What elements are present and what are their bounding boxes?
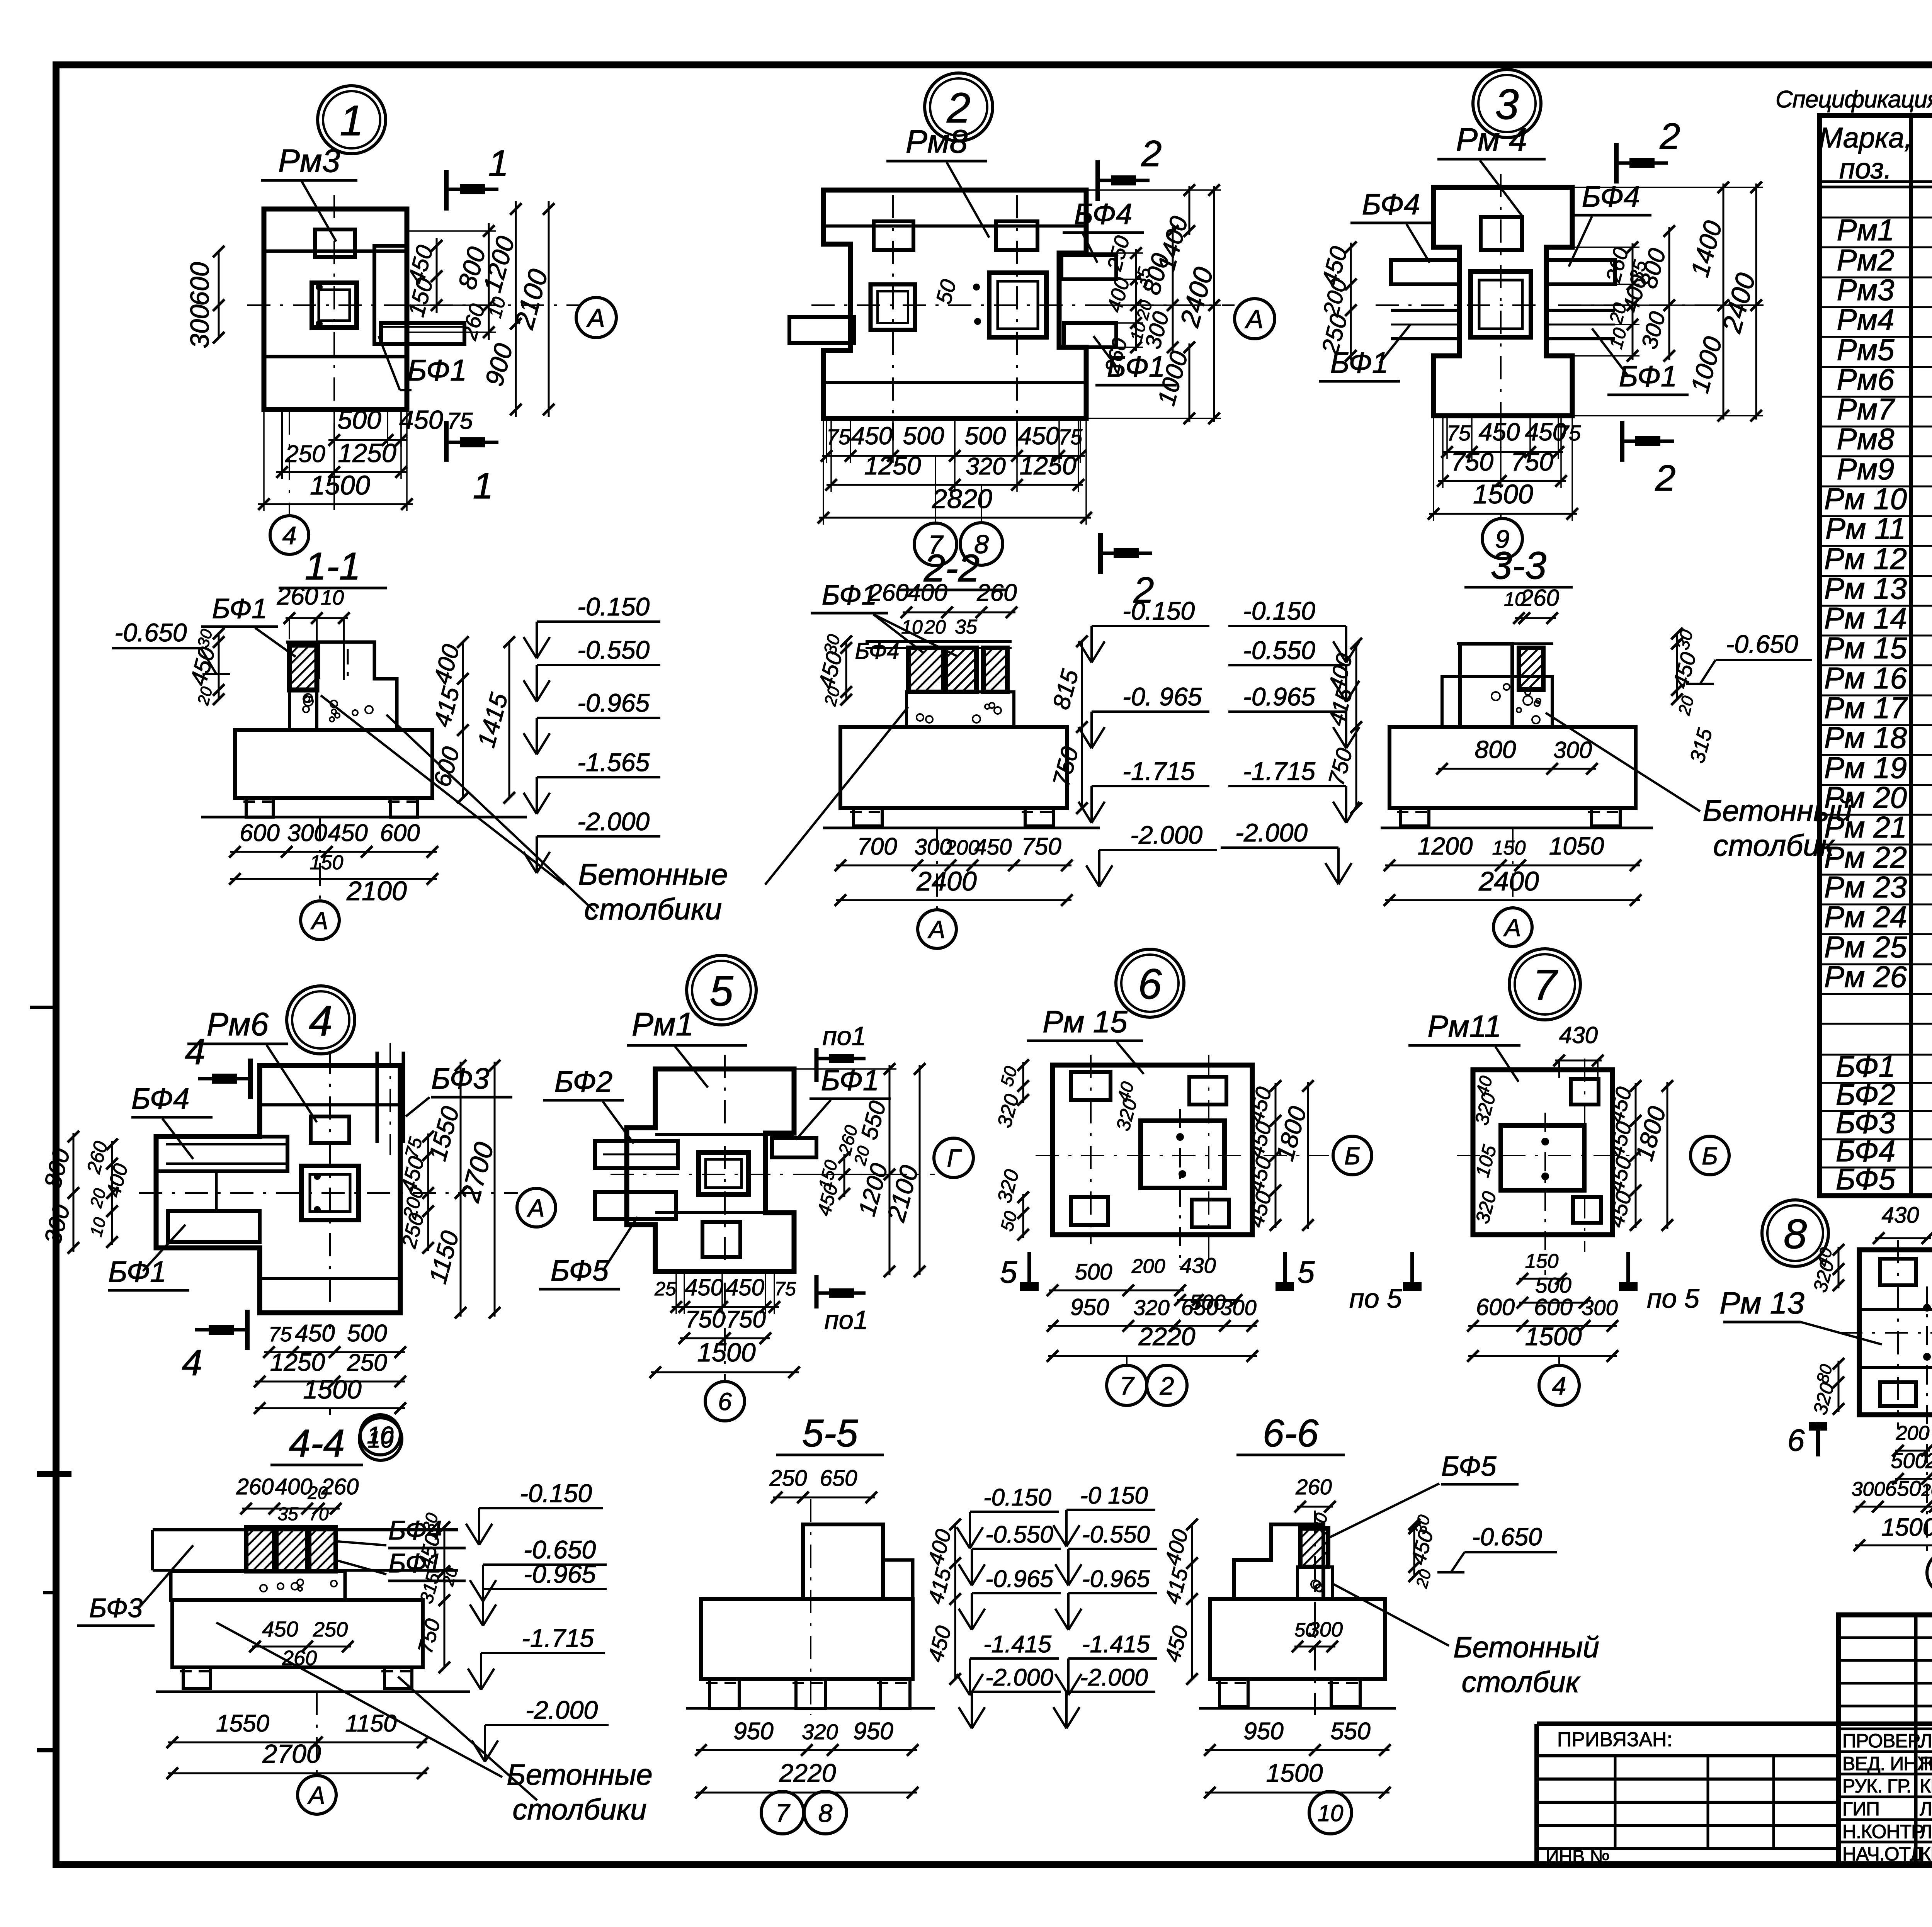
svg-text:1500: 1500: [310, 470, 370, 500]
detail 3: node number: [1473, 70, 1541, 138]
detail 3: grid circle 9: [1500, 514, 1502, 518]
section 4-4: axis circle А: [316, 1692, 318, 1776]
section 5-5: pier: [803, 1524, 883, 1599]
detail 1: foundation plan Рм3: [264, 209, 407, 410]
section 2-2: level flags right: [1090, 626, 1093, 663]
section 3-3: bottom dims: [1385, 865, 1640, 867]
svg-text:2: 2: [1141, 133, 1162, 174]
detail 1: section mark 1 bottom: [444, 421, 449, 462]
detail 4: section mark 4 top: [248, 1059, 253, 1099]
svg-text:2400: 2400: [1478, 866, 1539, 896]
section 2-2: leader to столбики: [765, 707, 908, 885]
section 3-3: vertical dims left: [1355, 644, 1357, 808]
detail 5: mark по1 bottom: [815, 1275, 819, 1308]
detail 5: beam БФ2 left top: [595, 1141, 678, 1168]
svg-text:по 5: по 5: [1647, 1283, 1700, 1314]
svg-text:Б: Б: [1702, 1142, 1718, 1170]
svg-text:БФ5: БФ5: [551, 1254, 609, 1287]
svg-text:-0.650: -0.650: [114, 618, 187, 647]
svg-text:10: 10: [368, 1427, 394, 1453]
detail 4: БФ3 dashed riser: [376, 1052, 379, 1143]
svg-text:по1: по1: [822, 1021, 866, 1051]
svg-text:950: 950: [853, 1718, 893, 1745]
detail 2: grid circles 7 8: [935, 456, 936, 523]
svg-text:-0.965: -0.965: [577, 688, 650, 717]
svg-text:1500: 1500: [1266, 1759, 1323, 1787]
section 1-1: footing: [235, 730, 432, 798]
svg-text:320: 320: [802, 1720, 838, 1744]
svg-text:2100: 2100: [346, 876, 407, 906]
svg-text:1500: 1500: [1473, 479, 1533, 509]
detail 7: right dims 450x4: [1635, 1083, 1637, 1228]
detail 3: column glass: [1471, 272, 1531, 337]
svg-text:600: 600: [185, 262, 214, 306]
title block: main right part: [1537, 1721, 1932, 1726]
section 4-4: hatched beams БФ4 БФ1: [246, 1527, 274, 1571]
section 3-3: ground line: [1381, 827, 1653, 829]
svg-text:Рм3: Рм3: [1837, 273, 1895, 307]
svg-text:2: 2: [1660, 116, 1680, 157]
detail 6: foundation plan Рм15: [1053, 1065, 1252, 1235]
svg-text:8: 8: [1784, 1210, 1807, 1257]
svg-text:-2.000: -2.000: [1235, 818, 1308, 847]
svg-text:450: 450: [1018, 422, 1060, 450]
svg-text:БФ1: БФ1: [108, 1256, 166, 1288]
svg-text:А: А: [527, 1194, 545, 1222]
svg-text:260: 260: [321, 1474, 359, 1499]
detail 6: central pocket: [1141, 1121, 1225, 1188]
svg-text:4: 4: [182, 1342, 202, 1383]
detail 8: top dim 430: [1875, 1237, 1931, 1239]
svg-text:1: 1: [340, 97, 363, 144]
svg-text:Рм4: Рм4: [1837, 302, 1895, 336]
detail 5: center lines: [724, 1055, 726, 1383]
svg-text:-0 150: -0 150: [1080, 1482, 1148, 1509]
svg-text:450: 450: [851, 422, 893, 450]
section 2-2: ground line: [823, 827, 1100, 829]
section 2-2: feet: [854, 808, 882, 826]
section 6-6: right dims 30 450 20: [1413, 1524, 1415, 1576]
svg-text:1050: 1050: [1549, 832, 1604, 860]
section 2-2: axis circle А: [936, 828, 938, 910]
svg-text:Рм 18: Рм 18: [1824, 721, 1907, 754]
svg-text:по 5: по 5: [1349, 1283, 1402, 1314]
svg-text:столбики: столбики: [512, 1793, 646, 1826]
svg-text:650: 650: [1885, 1476, 1921, 1500]
svg-text:2700: 2700: [262, 1739, 321, 1769]
svg-text:950: 950: [1243, 1718, 1283, 1745]
svg-text:600: 600: [1476, 1294, 1515, 1320]
svg-text:70: 70: [309, 1504, 329, 1524]
svg-text:6: 6: [1138, 960, 1162, 1008]
svg-text:25: 25: [654, 1278, 676, 1300]
svg-text:2: 2: [1655, 458, 1676, 499]
svg-text:450: 450: [328, 820, 367, 846]
detail 5: bottom dims: [672, 1306, 779, 1308]
svg-text:ВЕД. ИНЖ: ВЕД. ИНЖ: [1842, 1753, 1932, 1774]
svg-text:450: 450: [726, 1274, 764, 1300]
svg-text:7: 7: [1533, 961, 1558, 1009]
detail 8: section marks 6: [1816, 1422, 1820, 1456]
svg-text:700: 700: [857, 833, 897, 860]
svg-text:Рм 26: Рм 26: [1824, 960, 1907, 994]
svg-text:столбики: столбики: [584, 892, 722, 926]
svg-text:150: 150: [310, 851, 344, 874]
detail 2: node number: [925, 73, 993, 141]
svg-text:-0.550: -0.550: [577, 636, 650, 664]
svg-text:по1: по1: [824, 1305, 868, 1335]
svg-text:Рм11: Рм11: [1427, 1009, 1501, 1043]
detail 6: section marks 5: [1027, 1252, 1031, 1286]
svg-text:ПРОХОРОВА: ПРОХОРОВА: [1920, 1753, 1932, 1774]
svg-text:-1.715: -1.715: [1122, 757, 1195, 785]
svg-text:6: 6: [718, 1388, 732, 1416]
detail 8: left dims: [1838, 1247, 1840, 1288]
svg-text:7: 7: [1120, 1371, 1135, 1400]
svg-text:-0.550: -0.550: [1082, 1521, 1150, 1548]
svg-text:300: 300: [185, 304, 214, 348]
section 1-1: feet: [246, 798, 273, 817]
section 5-5: footing: [701, 1599, 913, 1679]
section 6-6: grid circle 10: [1309, 1791, 1352, 1834]
detail 7: axis circle Б: [1690, 1136, 1729, 1175]
svg-text:Бетонные: Бетонные: [578, 857, 728, 891]
svg-text:450: 450: [975, 834, 1012, 860]
svg-text:250: 250: [285, 441, 325, 467]
svg-text:7: 7: [776, 1799, 791, 1827]
sections 5-5/6-6: level flags middle columns: [969, 1512, 971, 1548]
section 6-6: concrete stub: [1298, 1567, 1332, 1599]
section 3-3: level flags left: [1345, 626, 1347, 663]
svg-text:Марка,: Марка,: [1819, 122, 1912, 154]
detail 6: bottom dims: [1049, 1290, 1184, 1291]
detail 1: bottom dims: [328, 439, 407, 441]
svg-text:3-3: 3-3: [1491, 544, 1547, 587]
svg-text:Рм 4: Рм 4: [1456, 121, 1527, 158]
detail 1: section mark 1 top: [444, 170, 449, 211]
detail 7: marks по5: [1410, 1252, 1414, 1286]
svg-text:-2.000: -2.000: [1080, 1664, 1148, 1691]
svg-text:260: 260: [1520, 585, 1559, 611]
section 3-3: leader Бетонный столбик: [1546, 713, 1700, 811]
detail 4: pocket inner lines: [215, 1171, 218, 1211]
svg-text:Рм 13: Рм 13: [1719, 1286, 1804, 1320]
section 1-1: bottom dims: [230, 851, 437, 853]
svg-text:Рм1: Рм1: [1837, 213, 1895, 247]
detail 2: bottom dims: [822, 455, 1085, 457]
svg-text:Рм 16: Рм 16: [1824, 661, 1907, 695]
svg-text:300: 300: [1220, 1295, 1256, 1320]
svg-text:800: 800: [1475, 736, 1516, 763]
detail 3: section mark 2 bottom: [1620, 421, 1624, 462]
detail 1: center lines: [333, 195, 335, 437]
section 4-4: bottom dims: [168, 1742, 427, 1743]
svg-text:75: 75: [827, 425, 851, 449]
section 5-5: center line: [810, 1499, 811, 1715]
svg-text:4: 4: [185, 1031, 206, 1072]
svg-text:-0.150: -0.150: [983, 1484, 1051, 1511]
detail 3: section mark 2 top: [1614, 143, 1619, 184]
detail 4: section mark 4 bottom: [245, 1310, 250, 1350]
detail 6: left dims: [1022, 1062, 1024, 1103]
detail 6: node number: [1116, 949, 1184, 1017]
detail 4: right dims: [427, 1133, 429, 1251]
svg-text:2220: 2220: [779, 1759, 836, 1787]
svg-text:БФ4: БФ4: [1074, 198, 1132, 231]
detail 4: beam БФ4 in left pocket: [156, 1137, 287, 1171]
detail 5: axis circle Г: [934, 1138, 973, 1178]
svg-text:300: 300: [1308, 1618, 1343, 1641]
section 4-4: pier: [171, 1571, 345, 1600]
section 3-3: top dim 10 260: [1515, 617, 1556, 619]
svg-text:300: 300: [1553, 737, 1592, 763]
detail 1: beam БФ1: [381, 323, 464, 344]
svg-text:А: А: [1503, 914, 1521, 941]
svg-text:260: 260: [236, 1474, 274, 1499]
section 4-4: inner dims 450 250 260: [252, 1646, 351, 1648]
section 2-2: beams БФ4 БФ1 hatched: [908, 648, 944, 692]
section 3-3: feet: [1400, 808, 1429, 826]
svg-text:БФ5: БФ5: [1441, 1451, 1497, 1482]
detail 3: right dims cluster: [1632, 243, 1634, 360]
svg-text:Рм9: Рм9: [1837, 452, 1895, 486]
svg-text:2820: 2820: [932, 484, 992, 514]
svg-text:5: 5: [709, 967, 733, 1015]
svg-text:260: 260: [1925, 1448, 1932, 1473]
svg-text:Б: Б: [1344, 1142, 1361, 1170]
svg-text:750: 750: [1021, 833, 1061, 860]
svg-text:-1.565: -1.565: [577, 748, 650, 777]
svg-text:35: 35: [955, 616, 978, 638]
detail 2: anchor pockets: [874, 221, 913, 250]
detail 8: grid circle 10: [1926, 1545, 1928, 1551]
svg-text:БФ1: БФ1: [407, 353, 467, 387]
detail 3: center lines: [1500, 174, 1502, 448]
svg-text:Рм 23: Рм 23: [1824, 870, 1907, 904]
svg-text:БФ3: БФ3: [89, 1593, 143, 1623]
section 6-6: ground line: [1199, 1707, 1396, 1710]
detail 1: column glass: [312, 283, 357, 328]
svg-text:2220: 2220: [1138, 1322, 1196, 1351]
detail 4: left dims: [73, 1133, 75, 1252]
section 4-4: ground line: [156, 1691, 470, 1693]
svg-text:1250: 1250: [864, 451, 921, 480]
detail 7: bottom dims: [1519, 1278, 1564, 1280]
svg-text:300: 300: [287, 820, 327, 846]
section 6-6: inner dims 50 300: [1294, 1646, 1335, 1648]
svg-text:Бетонный: Бетонный: [1453, 1631, 1599, 1664]
svg-text:2: 2: [1160, 1371, 1174, 1400]
detail 7: center lines: [1584, 1059, 1585, 1252]
detail 5: foundation plan Рм1: [627, 1069, 794, 1271]
svg-text:Рм7: Рм7: [1837, 392, 1895, 426]
svg-text:650: 650: [1181, 1295, 1219, 1320]
section 1-1: beam БФ1 cross-section (hatched): [286, 641, 374, 644]
section 6-6: feet: [1219, 1679, 1248, 1707]
svg-text:Рм8: Рм8: [906, 123, 968, 160]
section 4-4: grid circle 10 top: [359, 1418, 402, 1460]
svg-text:Рм 15: Рм 15: [1043, 1004, 1128, 1039]
section 6-6: centre line: [1314, 1511, 1316, 1715]
detail 5: right dims 550 1200 2100: [889, 1065, 891, 1178]
svg-text:Бетонный: Бетонный: [1702, 794, 1852, 828]
svg-text:200: 200: [1131, 1255, 1165, 1278]
svg-text:КРАСАВНН: КРАСАВНН: [1920, 1843, 1932, 1865]
svg-text:1250: 1250: [1020, 451, 1077, 480]
svg-text:Рм 15: Рм 15: [1824, 631, 1907, 665]
section 3-3: footing: [1389, 727, 1636, 808]
section 4-4: slab band: [153, 1528, 458, 1531]
svg-text:260: 260: [976, 579, 1017, 606]
svg-text:1: 1: [488, 143, 509, 184]
svg-text:ПРОВЕР.: ПРОВЕР.: [1842, 1730, 1922, 1752]
title block: left part (Привязан): [1534, 1724, 1539, 1865]
section 6-6: beam БФ5 hatched: [1300, 1528, 1328, 1567]
specification table grid: [1820, 116, 1932, 1196]
svg-text:РУК. ГР.: РУК. ГР.: [1842, 1775, 1911, 1797]
section 3-3: beam БФ1 hatched: [1519, 648, 1543, 690]
svg-text:1500: 1500: [303, 1375, 361, 1404]
svg-text:1500: 1500: [1881, 1513, 1932, 1541]
detail 1: grid circle 4: [289, 411, 290, 516]
section 3-3: axis circle А: [1512, 828, 1514, 908]
svg-text:столбик: столбик: [1462, 1666, 1581, 1699]
svg-text:75: 75: [447, 408, 473, 434]
sections 6-6: vertical dim 400 415 450: [1191, 1524, 1193, 1679]
svg-text:650: 650: [820, 1466, 857, 1491]
svg-text:ЛОУЦКЕР: ЛОУЦКЕР: [1920, 1730, 1932, 1752]
svg-text:10: 10: [321, 586, 344, 609]
section 2-2: concrete band: [906, 692, 1014, 727]
svg-text:430: 430: [1180, 1253, 1216, 1278]
svg-text:-0.965: -0.965: [985, 1566, 1053, 1592]
svg-text:БФ4: БФ4: [1582, 180, 1640, 213]
svg-text:750: 750: [685, 1306, 725, 1333]
section 3-3: concrete stub: [1442, 676, 1552, 727]
svg-text:5-5: 5-5: [802, 1412, 858, 1455]
detail 2: center glass: [989, 273, 1046, 337]
svg-text:500: 500: [1535, 1273, 1571, 1297]
svg-text:450: 450: [262, 1617, 298, 1641]
detail 7: foundation plan Рм11: [1473, 1070, 1612, 1235]
detail 6: center lines: [1090, 1055, 1092, 1244]
svg-text:Рм 24: Рм 24: [1824, 900, 1907, 934]
detail 3: beams left БФ4 БФ1: [1391, 260, 1459, 284]
section 4-4: vertical dims: [444, 1527, 446, 1667]
detail 7: node number: [1509, 949, 1580, 1020]
svg-text:Рм3: Рм3: [278, 143, 340, 179]
svg-text:1-1: 1-1: [305, 545, 361, 588]
svg-text:6: 6: [1787, 1423, 1805, 1457]
svg-text:200: 200: [1896, 1422, 1930, 1444]
detail 3: foundation plan Рм4: [1434, 187, 1572, 416]
section 5-5: feet: [709, 1679, 739, 1708]
svg-text:260: 260: [1295, 1475, 1332, 1499]
detail 1: right dims: [436, 238, 438, 313]
svg-text:750: 750: [726, 1306, 765, 1333]
svg-text:8: 8: [818, 1799, 833, 1827]
svg-text:столбик: столбик: [1713, 828, 1835, 862]
svg-text:БФ4: БФ4: [131, 1082, 189, 1115]
section 6-6: leader Бетонный столбик: [1333, 1584, 1449, 1646]
detail 1: anchor pocket: [315, 229, 355, 257]
detail 3: bottom dims: [1442, 451, 1563, 453]
section 4-4: top dims: [242, 1508, 340, 1510]
detail 3: left dims: [1350, 243, 1352, 360]
detail 2: beam БФ1 right: [1064, 323, 1116, 347]
svg-text:5: 5: [1000, 1255, 1017, 1289]
detail 2: beam БФ1 left: [789, 317, 854, 343]
svg-text:5: 5: [1298, 1255, 1315, 1289]
section 2-2: top plate: [866, 640, 1012, 643]
detail 6: axis circle Б: [1333, 1136, 1372, 1175]
svg-text:Н.КОНТР: Н.КОНТР: [1842, 1821, 1923, 1842]
svg-text:-0. 965: -0. 965: [1122, 682, 1202, 711]
svg-text:БФ1: БФ1: [212, 593, 267, 624]
svg-text:450: 450: [685, 1274, 723, 1300]
section 1-1: rostverk body: [318, 642, 397, 730]
svg-text:-0.150: -0.150: [520, 1479, 592, 1507]
svg-text:600: 600: [240, 820, 279, 846]
section 1-1: leader Бетонные столбики: [321, 695, 564, 885]
svg-text:450: 450: [399, 405, 443, 435]
svg-text:1250: 1250: [270, 1348, 325, 1376]
detail 8: foundation plan Рм13: [1859, 1250, 1932, 1415]
detail 2: left glass: [871, 284, 915, 330]
detail 6: anchor pockets: [1071, 1072, 1111, 1100]
svg-text:А: А: [927, 916, 946, 943]
svg-text:-0.965: -0.965: [1243, 682, 1315, 711]
svg-text:Рм 22: Рм 22: [1824, 840, 1907, 874]
svg-text:4: 4: [309, 997, 332, 1045]
svg-text:-1.715: -1.715: [522, 1624, 594, 1652]
section 2-2: footing: [840, 727, 1067, 808]
svg-text:-0.650: -0.650: [1472, 1523, 1542, 1551]
svg-text:750: 750: [1511, 447, 1553, 476]
svg-text:430: 430: [1559, 1022, 1598, 1048]
svg-text:250: 250: [313, 1618, 348, 1641]
svg-text:ПРИВЯЗАН:: ПРИВЯЗАН:: [1557, 1728, 1672, 1751]
svg-text:ГИП: ГИП: [1842, 1798, 1879, 1820]
svg-text:4: 4: [1552, 1371, 1566, 1400]
svg-text:Рм6: Рм6: [1837, 362, 1895, 396]
svg-text:260: 260: [277, 582, 318, 610]
detail 2: center lines: [892, 195, 894, 440]
svg-text:-2.000: -2.000: [1130, 821, 1202, 849]
detail 5: node number: [687, 955, 756, 1025]
svg-text:-0.550: -0.550: [1243, 636, 1315, 664]
svg-text:Рм 10: Рм 10: [1824, 482, 1907, 516]
detail 3: beams right БФ4 БФ1: [1546, 260, 1615, 284]
svg-text:НАЧ.ОТД: НАЧ.ОТД: [1842, 1843, 1923, 1865]
svg-text:Спецификация к схеме расположе: Спецификация к схеме расположения моноли…: [1776, 86, 1932, 113]
svg-text:ЛОУЦКЕР: ЛОУЦКЕР: [1920, 1798, 1932, 1820]
section 4-4: footing: [172, 1600, 423, 1667]
svg-text:300: 300: [1852, 1478, 1885, 1500]
svg-text:БФ5: БФ5: [1836, 1162, 1896, 1196]
svg-text:450: 450: [295, 1320, 335, 1347]
svg-text:1250: 1250: [338, 438, 396, 468]
detail 1: node number: [318, 86, 386, 154]
section 4-4: level flags right: [478, 1508, 480, 1545]
svg-text:Рм 14: Рм 14: [1824, 601, 1907, 635]
svg-text:750: 750: [1451, 447, 1493, 476]
section 1-1: vertical dims: [462, 642, 464, 798]
svg-text:1500: 1500: [1525, 1322, 1582, 1351]
svg-text:250: 250: [769, 1466, 807, 1491]
svg-text:150: 150: [1525, 1250, 1559, 1273]
svg-text:500: 500: [965, 422, 1006, 450]
